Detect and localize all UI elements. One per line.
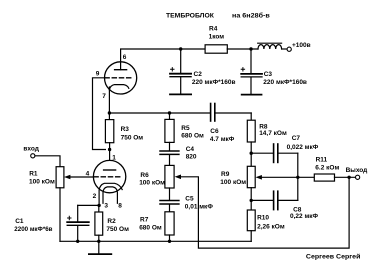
potentiometer R1 — [29, 167, 64, 188]
svg-text:Выход: Выход — [346, 167, 368, 174]
svg-text:820: 820 — [186, 154, 197, 161]
capacitor C1 (electrolytic) — [14, 205, 89, 241]
svg-text:14,7 кОм: 14,7 кОм — [259, 130, 287, 137]
svg-text:C5: C5 — [185, 195, 194, 202]
svg-text:C3: C3 — [264, 71, 273, 78]
resistor R11 — [314, 156, 339, 181]
svg-text:C4: C4 — [186, 146, 195, 153]
resistor R7 — [139, 212, 174, 242]
wire node to R11 — [298, 176, 315, 178]
svg-text:вход: вход — [23, 146, 38, 153]
tube V2 anode plate — [104, 169, 116, 171]
resistor R4 — [205, 26, 227, 54]
svg-text:4: 4 — [86, 170, 90, 177]
node C7 left — [250, 152, 253, 155]
svg-text:Сергеев Сергей: Сергеев Сергей — [306, 252, 361, 260]
node R2 bottom / ground — [97, 240, 100, 243]
wire input to R1 top — [35, 156, 60, 167]
svg-text:R4: R4 — [209, 26, 218, 33]
capacitor C4 — [160, 142, 197, 165]
wire mid rail — [109, 112, 210, 114]
wire R3 bottom to V2 anode — [109, 143, 111, 161]
wire R8 bottom to R9 top — [250, 142, 252, 166]
svg-text:750 Ом: 750 Ом — [121, 134, 144, 141]
inductor L1 choke — [258, 43, 282, 49]
svg-text:C2: C2 — [194, 71, 203, 78]
svg-text:220 мкФ*160в: 220 мкФ*160в — [263, 79, 307, 86]
svg-text:R11: R11 — [316, 156, 328, 163]
wire V2 grid to R1 wiper with arrow — [70, 176, 93, 178]
node A (R3 bottom / V2 anode / V1 grid) — [108, 148, 111, 151]
svg-text:3: 3 — [104, 202, 108, 209]
svg-text:9: 9 — [96, 71, 100, 78]
signature — [306, 252, 361, 260]
svg-text:6.2 кОм: 6.2 кОм — [315, 164, 339, 171]
svg-text:C7: C7 — [292, 135, 301, 142]
tube V1 upper triode envelope — [105, 62, 137, 94]
node V1 cathode / mid rail — [108, 111, 111, 114]
wire R1 bottom to ground rail — [59, 188, 61, 242]
tube V2 lower triode envelope — [93, 160, 125, 192]
svg-text:6: 6 — [123, 54, 127, 61]
svg-text:+100в: +100в — [292, 42, 311, 49]
svg-text:1ком: 1ком — [209, 34, 225, 41]
title tube type — [232, 12, 270, 20]
svg-text:R10: R10 — [257, 214, 269, 221]
ground bar under C2 — [170, 93, 191, 95]
svg-text:R2: R2 — [107, 218, 116, 225]
tube V2 grid (dashed) — [94, 176, 121, 178]
node C1 bottom — [76, 240, 79, 243]
svg-text:680 Ом: 680 Ом — [181, 133, 204, 140]
wire right node vertical C7-C8 — [297, 153, 299, 200]
capacitor C7 — [251, 135, 319, 162]
wire B+ rail right (R4 to choke) — [227, 48, 258, 50]
wire B+ rail left (tube V1 anode to R4) — [121, 49, 206, 70]
node C8 left — [250, 199, 253, 202]
wire R9 bottom to R10 — [250, 188, 252, 210]
svg-text:2200 мкФ*6в: 2200 мкФ*6в — [14, 226, 52, 233]
wire R9 wiper to output node with arrow — [262, 176, 298, 178]
svg-text:0,01 мкФ: 0,01 мкФ — [185, 204, 214, 211]
wire V2 cathode node to C1 — [78, 204, 99, 206]
svg-text:100 кОм: 100 кОм — [139, 180, 165, 187]
capacitor C3 (electrolytic) — [241, 49, 307, 94]
svg-text:750 Ом: 750 Ом — [106, 226, 129, 233]
node output bus — [296, 176, 299, 179]
svg-text:100 кОм: 100 кОм — [220, 179, 246, 186]
terminal input — [31, 154, 35, 158]
wire R6 wiper to output bus with arrow — [181, 177, 349, 248]
svg-text:R6: R6 — [140, 172, 149, 179]
capacitor C6 — [210, 104, 251, 144]
resistor R5 — [165, 113, 204, 142]
potentiometer R9 — [220, 166, 255, 187]
svg-text:C6: C6 — [210, 128, 219, 135]
terminal output — [356, 175, 360, 179]
svg-text:на 6н28б-в: на 6н28б-в — [232, 12, 270, 20]
tube V1 grid (dashed) — [105, 77, 131, 79]
tube V1 cathode arc — [109, 85, 128, 90]
potentiometer R6 — [139, 165, 174, 188]
pin label 4 — [86, 170, 90, 177]
pin label 8 — [118, 202, 122, 209]
wire V1 cathode down to R3 — [108, 87, 110, 120]
resistor R10 — [247, 210, 285, 241]
tube V1 anode plate — [115, 69, 127, 71]
svg-text:C1: C1 — [15, 218, 24, 225]
wire C6 to R8 — [250, 113, 252, 120]
tube V2 cathode arc with pin2 lead — [99, 183, 122, 205]
capacitor C2 (electrolytic) — [170, 49, 236, 94]
node R7 bottom — [168, 240, 171, 243]
capacitor C5 — [160, 188, 213, 212]
wire grid V1 pin9 to node A — [93, 78, 106, 150]
resistor R2 — [95, 205, 129, 241]
tube V2 heater arc pins 3,8 — [103, 187, 117, 203]
svg-text:R1: R1 — [29, 171, 38, 178]
pin label 2 — [93, 193, 97, 200]
svg-text:220 мкФ*160в: 220 мкФ*160в — [192, 79, 236, 86]
pin label 3 — [104, 202, 108, 209]
pin label 1 — [112, 155, 116, 162]
pin label 7 — [102, 93, 106, 100]
title ТЕМБРОБЛОК — [166, 12, 215, 19]
svg-text:R5: R5 — [181, 125, 190, 132]
svg-text:680 Ом: 680 Ом — [139, 224, 162, 231]
node output junction — [347, 176, 350, 179]
node C3 top junction — [249, 47, 252, 50]
node C2 top junction — [179, 47, 182, 50]
svg-text:8: 8 — [118, 202, 122, 209]
ground bar under C3 — [242, 94, 262, 96]
svg-text:0,22 мкФ: 0,22 мкФ — [290, 213, 319, 220]
svg-text:R9: R9 — [221, 171, 230, 178]
resistor R8 — [247, 120, 287, 142]
svg-text:7: 7 — [102, 93, 106, 100]
svg-text:R7: R7 — [140, 216, 149, 223]
node V2 cathode — [97, 204, 100, 207]
capacitor C8 — [251, 191, 318, 220]
svg-text:2: 2 — [93, 193, 97, 200]
pin label 6 — [123, 54, 127, 61]
svg-text:ТЕМБРОБЛОК: ТЕМБРОБЛОК — [166, 12, 215, 19]
terminal +100v — [287, 47, 291, 51]
resistor R3 — [105, 120, 143, 143]
svg-text:4.7 мкФ: 4.7 мкФ — [210, 136, 235, 143]
ground rail — [60, 240, 251, 242]
svg-text:R3: R3 — [121, 126, 130, 133]
wire choke to +100v terminal — [282, 48, 288, 50]
pin label 9 — [96, 71, 100, 78]
svg-text:0,022 мкФ: 0,022 мкФ — [287, 144, 319, 151]
wire R11 to output terminal — [335, 176, 356, 178]
ground symbol — [89, 241, 111, 254]
svg-text:100 кОм: 100 кОм — [29, 178, 55, 185]
svg-text:2,26 кОм: 2,26 кОм — [257, 223, 285, 230]
node R5 top — [168, 111, 171, 114]
